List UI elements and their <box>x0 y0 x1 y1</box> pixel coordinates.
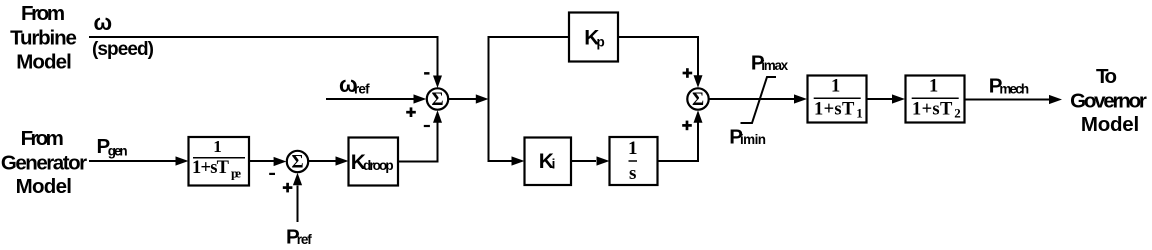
block Ki <box>525 138 572 186</box>
wire Pmech output <box>965 99 1050 101</box>
arrowhead into S1 bottom <box>433 110 442 123</box>
sign plus at S1 left input <box>406 107 416 117</box>
sign plus at S2 top input <box>683 68 693 78</box>
wire SP output to block Kdroop <box>309 160 336 162</box>
svg-text:ref: ref <box>297 232 313 247</box>
block Kdroop <box>349 138 399 186</box>
arrowhead into S1 top <box>433 76 442 89</box>
wire Kdroop output right then up into S1 bottom <box>398 122 438 163</box>
block TF2: 1/(1+sT2) <box>906 76 965 123</box>
svg-text:Σ: Σ <box>692 90 704 110</box>
arrowhead at branch node <box>476 94 489 103</box>
limiter saturation symbol <box>741 77 777 123</box>
svg-text:From: From <box>21 2 65 25</box>
wire omega_ref into S1 left <box>326 98 414 100</box>
summer S2 (PI output junction) <box>687 88 708 110</box>
arrowhead into SP bottom <box>293 173 302 186</box>
svg-text:1: 1 <box>213 137 222 156</box>
block TFpe: 1/(1+sTpe) <box>189 137 250 186</box>
label "From Turbine Model" <box>10 2 77 73</box>
wire branch to Kp <box>488 36 570 38</box>
svg-text:droop: droop <box>363 158 394 173</box>
svg-text:1: 1 <box>929 77 938 97</box>
svg-text:Turbine: Turbine <box>10 27 77 50</box>
wire TF1 to TF2 <box>867 98 893 100</box>
label "From Generator Model" <box>1 127 87 198</box>
svg-text:Governor: Governor <box>1070 90 1147 113</box>
wire TFpe output to summer SP <box>249 160 274 162</box>
svg-text:1: 1 <box>628 138 638 159</box>
arrowhead Pmech output <box>1049 95 1062 104</box>
sign minus at SP left input <box>269 173 275 175</box>
summer S1 (omega junction) <box>427 88 448 110</box>
summer SP (Pref junction) <box>287 151 308 173</box>
wire Pref vertical into SP bottom <box>297 186 299 223</box>
arrowhead into S2 top <box>694 75 703 88</box>
svg-text:1: 1 <box>856 106 863 121</box>
wire Kp output right then down into S2 top <box>618 36 698 76</box>
wire branch to Ki <box>488 160 512 162</box>
label Pref <box>286 225 312 248</box>
svg-text:imax: imax <box>761 58 788 73</box>
svg-text:gen: gen <box>108 143 128 158</box>
svg-text:imin: imin <box>740 132 766 147</box>
arrowhead into integrator <box>597 156 610 165</box>
svg-text:2: 2 <box>954 106 961 121</box>
sign minus at S1 top input <box>424 72 429 75</box>
arrowhead into SP left <box>274 157 287 166</box>
svg-text:pe: pe <box>231 166 241 181</box>
arrowhead into TF2 <box>892 94 905 103</box>
svg-text:1+sT: 1+sT <box>814 100 855 120</box>
svg-text:i: i <box>552 157 556 172</box>
svg-text:1+sT: 1+sT <box>912 100 953 120</box>
wire branch vertical <box>488 36 490 162</box>
wire omega horizontal from turbine model <box>89 36 438 38</box>
block TF1: 1/(1+sT1) <box>808 76 867 123</box>
label Pimax <box>751 52 789 75</box>
svg-text:1: 1 <box>831 77 840 97</box>
arrowhead into S2 bottom <box>694 110 703 123</box>
block integrator 1/s <box>610 137 658 185</box>
svg-text:ω: ω <box>94 10 113 35</box>
svg-text:To: To <box>1096 65 1117 88</box>
sign plus at S2 bottom input <box>682 121 692 131</box>
svg-text:(speed): (speed) <box>92 39 154 60</box>
label Pgen <box>97 135 128 158</box>
arrowhead into Kdroop <box>336 156 349 165</box>
svg-text:1+sT: 1+sT <box>192 158 230 178</box>
label omega_ref <box>339 72 370 97</box>
svg-text:Σ: Σ <box>291 152 303 172</box>
node omega (speed) label <box>92 10 154 60</box>
wire integrator output right then up into S2 bottom <box>658 122 698 163</box>
svg-text:Model: Model <box>16 51 72 74</box>
sign plus at SP bottom input <box>283 183 293 193</box>
label Pimin <box>729 126 766 149</box>
svg-text:Generator: Generator <box>1 152 87 175</box>
svg-text:p: p <box>597 34 605 49</box>
svg-text:Model: Model <box>1081 113 1139 136</box>
svg-text:ref: ref <box>354 81 370 96</box>
wire Ki output to integrator <box>571 160 596 162</box>
arrowhead into Ki <box>512 156 525 165</box>
wire S2 output to block TF1 <box>709 98 794 100</box>
wire S1 output to branch node <box>449 98 476 100</box>
block Kp <box>569 13 618 62</box>
arrowhead into S1 left <box>414 94 427 103</box>
sign minus at S1 bottom input <box>424 125 430 127</box>
svg-text:mech: mech <box>999 81 1029 96</box>
wire omega vertical drop into summer S1 <box>437 36 439 76</box>
label Pmech <box>989 75 1029 98</box>
svg-text:From: From <box>21 127 64 150</box>
label "To Governor Model" <box>1070 65 1147 136</box>
svg-text:s: s <box>629 163 636 184</box>
svg-text:Σ: Σ <box>431 90 443 110</box>
arrowhead into TF1 <box>794 94 807 103</box>
wire Pgen from generator model to block TFpe <box>89 160 176 162</box>
arrowhead into TFpe <box>176 156 189 165</box>
svg-text:Model: Model <box>16 175 72 198</box>
